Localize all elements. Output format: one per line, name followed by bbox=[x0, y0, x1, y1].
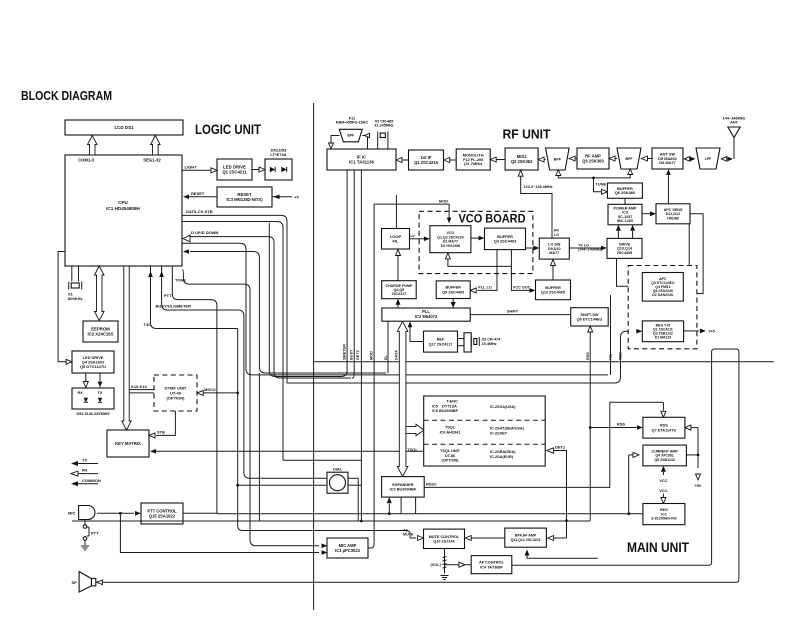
svg-text:AF CONTROL: AF CONTROL bbox=[479, 561, 505, 565]
arrows ANT SW to LPF bbox=[684, 157, 690, 162]
svg-text:LIGHT: LIGHT bbox=[185, 164, 198, 169]
arrow into VCO bbox=[424, 237, 430, 242]
arrow into key matrix bbox=[150, 449, 156, 454]
svg-text:+5V: +5V bbox=[694, 483, 701, 488]
DTMF unit UT-49 option bbox=[154, 375, 197, 411]
svg-text:MUTE CONTROL: MUTE CONTROL bbox=[429, 535, 460, 539]
svg-text:BPF: BPF bbox=[554, 157, 562, 161]
BPF AF amp Q11 Q12 bbox=[505, 528, 547, 547]
wire long rail y520 bbox=[72, 520, 590, 522]
junction dial feed bbox=[236, 484, 239, 487]
arrow buffer Q12 up to LO SW bbox=[552, 266, 554, 281]
junction expander rail bbox=[388, 512, 391, 515]
arrow into diode box bbox=[259, 167, 265, 172]
APC Q3 Q4 Q6 D2 bbox=[642, 273, 683, 302]
svg-text:VCC: VCC bbox=[659, 488, 667, 493]
reset IC3 bbox=[217, 187, 272, 207]
wire RSSC bbox=[424, 402, 657, 487]
arrow into PTT control bbox=[135, 511, 141, 516]
svg-text:MIC: MIC bbox=[68, 511, 75, 516]
svg-text:LT*E73A: LT*E73A bbox=[270, 152, 286, 157]
arrow into LED drive 2 bbox=[66, 359, 72, 364]
separator T-ENC row2 bbox=[424, 443, 546, 445]
svg-text:LO: LO bbox=[554, 233, 559, 237]
svg-text:D2 HVU356: D2 HVU356 bbox=[441, 244, 460, 248]
wire LO SW to drive bbox=[569, 247, 601, 249]
wire X2 to IF IC b bbox=[387, 139, 389, 149]
regulator REG T+5 bbox=[642, 321, 683, 342]
arrow BUSY into CPU bbox=[159, 271, 164, 277]
arrow APC sense to ANT SW bbox=[666, 169, 671, 175]
svg-text:DATA: DATA bbox=[395, 350, 399, 360]
svg-text:(OPTION): (OPTION) bbox=[166, 395, 185, 400]
wire dial feed lower bbox=[238, 484, 327, 486]
wire T3C bbox=[151, 266, 238, 329]
wire expander bottom stub a bbox=[400, 497, 402, 514]
svg-text:BUSY: BUSY bbox=[349, 349, 353, 360]
wire X2 to IF IC a bbox=[377, 139, 379, 149]
svg-text:VCC: VCC bbox=[659, 478, 667, 483]
label 144-146MHz ANT bbox=[723, 117, 746, 125]
APC REG dashed outline bbox=[628, 266, 697, 349]
T-ENC row1 text bbox=[432, 400, 516, 414]
arrow RESET into CPU bbox=[183, 195, 189, 200]
wire DATA CK STB pair a bbox=[182, 215, 287, 383]
svg-text:RX: RX bbox=[77, 391, 83, 395]
mixer MIX1 Q2 bbox=[505, 148, 538, 170]
svg-text:T-ENC: T-ENC bbox=[446, 400, 458, 404]
svg-text:(VOL): (VOL) bbox=[431, 563, 442, 567]
arrow AF mute into mute control bbox=[409, 535, 411, 538]
diode D52 bbox=[270, 167, 275, 172]
wire RSS net bbox=[589, 332, 591, 521]
svg-text:LOGIC UNIT: LOGIC UNIT bbox=[195, 122, 261, 138]
arrow up into shift-sw bbox=[588, 326, 593, 332]
arrow into buffer Q3 bbox=[479, 236, 485, 241]
svg-text:MA77: MA77 bbox=[549, 251, 559, 255]
wire F11 left leg bbox=[331, 136, 339, 147]
wire MOD to VCO bbox=[374, 204, 449, 217]
wire BUSY UL SMETER bbox=[162, 266, 327, 478]
arrow tune BPF2 bbox=[628, 169, 633, 175]
arrow T3C into CPU bbox=[148, 271, 153, 277]
arrow into MIC AMP upper bbox=[322, 544, 328, 549]
arrow BPF2 to RF amp bbox=[609, 156, 615, 161]
svg-text:FIL: FIL bbox=[392, 238, 399, 243]
svg-text:H5U88: H5U88 bbox=[667, 216, 678, 220]
arrow MIX1 to monolith bbox=[496, 159, 505, 161]
arrow PLL to charge pump bbox=[397, 305, 399, 309]
arrow LO into MIX1 bbox=[518, 170, 523, 176]
wire APC to APC sense bbox=[684, 224, 690, 279]
wire MIX1 LO bbox=[521, 176, 552, 238]
svg-text:SP: SP bbox=[72, 580, 78, 585]
arrow PLL LO into buffer Q9 bbox=[470, 288, 476, 293]
svg-text:TX: TX bbox=[98, 391, 103, 395]
arrow hollow into diode pack bbox=[83, 382, 88, 388]
arrow VCC into current amp bbox=[662, 472, 664, 475]
expander IC3 bbox=[382, 477, 425, 498]
wire buffer Q6 to power amp bbox=[624, 198, 626, 204]
ground under PTT bbox=[81, 546, 89, 550]
wire K10-K13 lower bbox=[130, 392, 154, 394]
LED drive Q4 Q5 bbox=[72, 351, 114, 373]
svg-text:2SC4117: 2SC4117 bbox=[392, 292, 407, 296]
arrow MSCO into DTMF bbox=[197, 390, 203, 395]
svg-text:PTT: PTT bbox=[164, 293, 172, 298]
svg-text:REF: REF bbox=[437, 338, 445, 342]
separator T-ENC row1 bbox=[424, 419, 546, 421]
reference osc Q17 bbox=[424, 331, 458, 352]
svg-text:IC-2SXET: IC-2SXET bbox=[490, 432, 508, 436]
mute control Q10 bbox=[424, 529, 465, 548]
svg-text:Q11,Q12 2SC4211: Q11,Q12 2SC4211 bbox=[511, 538, 541, 542]
crystal X2 bbox=[378, 132, 388, 140]
PLL IC2 M64073 bbox=[382, 308, 470, 321]
svg-text:LCD DS1: LCD DS1 bbox=[114, 125, 134, 130]
diode pack D54 bbox=[72, 388, 114, 409]
RSS Q7 bbox=[643, 417, 685, 438]
wire +5 to reset bbox=[272, 196, 292, 198]
svg-text:MOD: MOD bbox=[439, 198, 448, 203]
wire Q4 to diode pack left bbox=[85, 373, 87, 381]
svg-text:LPF: LPF bbox=[705, 157, 713, 161]
arrow into RSS right bbox=[685, 425, 691, 430]
buffer Q12 bbox=[536, 280, 571, 300]
svg-text:IC1 µPC3023: IC1 µPC3023 bbox=[335, 548, 361, 553]
svg-text:TX: TX bbox=[82, 458, 87, 463]
svg-text:Q2 2SK362: Q2 2SK362 bbox=[511, 159, 533, 164]
svg-text:MSCO: MSCO bbox=[204, 387, 216, 392]
label D52 D53 LT*E73A bbox=[270, 148, 287, 157]
svg-text:BUSY/UL/SMETER: BUSY/UL/SMETER bbox=[156, 304, 192, 309]
svg-text:RSS: RSS bbox=[617, 422, 625, 427]
svg-text:MUTE: MUTE bbox=[403, 533, 414, 537]
junction tune bbox=[592, 177, 595, 180]
wire LED drive to diodes bbox=[252, 169, 259, 171]
junction RSS line bbox=[589, 426, 592, 429]
svg-text:SHIFT-SW: SHIFT-SW bbox=[580, 313, 599, 317]
wire STB bbox=[156, 411, 175, 435]
wire loop fil top stub bbox=[395, 195, 397, 229]
svg-text:KBM-455FG-15AC: KBM-455FG-15AC bbox=[336, 121, 369, 125]
svg-text:T+5: T+5 bbox=[708, 329, 716, 334]
svg-text:STB: STB bbox=[157, 429, 165, 434]
arrow into drive bbox=[601, 246, 607, 251]
arrow into APC right bbox=[684, 291, 690, 296]
APC sense D11 D12 bbox=[656, 204, 690, 224]
arrow drive to power amp a bbox=[617, 231, 619, 238]
wire Q5 to diode pack right bbox=[99, 373, 101, 381]
wire into LED drive 2 bbox=[58, 252, 66, 362]
svg-text:K10-K13: K10-K13 bbox=[131, 384, 147, 389]
arrow into APC left bbox=[636, 284, 642, 289]
svg-text:RSSC: RSSC bbox=[426, 481, 437, 486]
diode box D52 D53 bbox=[265, 159, 292, 180]
arrow F11 into IF IC bbox=[329, 143, 334, 149]
wire current amp right to +5V and RSS bbox=[686, 428, 698, 468]
crystal X3 connector bbox=[458, 333, 472, 352]
arrow into MIC AMP lower bbox=[322, 550, 328, 555]
LO switch D9 D10 bbox=[539, 238, 569, 259]
wire long rail y362 bbox=[314, 361, 774, 363]
crystal X3 bbox=[471, 337, 479, 346]
svg-text:MAIN UNIT: MAIN UNIT bbox=[627, 540, 690, 555]
legend COMMON arrow bbox=[71, 481, 78, 486]
arrow VCC OUT into buffer Q12 bbox=[530, 288, 536, 293]
antenna switch D5 D6 bbox=[652, 148, 683, 169]
svg-text:BPF,AF AMP: BPF,AF AMP bbox=[515, 534, 537, 538]
svg-text:Q12 2SC4405: Q12 2SC4405 bbox=[541, 291, 565, 295]
wire loop fil to VCO bbox=[410, 238, 424, 240]
wire dial to det line upper bbox=[348, 478, 358, 521]
svg-text:EL: EL bbox=[384, 354, 388, 360]
junction current amp output bbox=[697, 454, 700, 457]
svg-text:SEG1-32: SEG1-32 bbox=[143, 158, 161, 163]
net label TX LO 144-146MHz bbox=[578, 244, 603, 252]
svg-text:Q6 2SK880: Q6 2SK880 bbox=[615, 190, 636, 195]
svg-text:PTT: PTT bbox=[91, 531, 99, 536]
speaker input arrow bbox=[97, 580, 103, 585]
svg-text:IC1 TA31136: IC1 TA31136 bbox=[349, 160, 374, 165]
arrow STB into key matrix bbox=[149, 433, 155, 438]
svg-text:COMMON: COMMON bbox=[82, 478, 101, 483]
wire REF to PLL bbox=[410, 327, 424, 342]
svg-text:SMETER: SMETER bbox=[343, 344, 347, 360]
arrow RF amp to BPF1 bbox=[569, 156, 575, 161]
supply +5V arrow bbox=[696, 474, 701, 480]
monolith filter F12 bbox=[456, 149, 490, 170]
PTT switch bbox=[83, 520, 89, 545]
BPF filter 2 bbox=[617, 148, 641, 169]
svg-text:IC2 M64073: IC2 M64073 bbox=[415, 314, 438, 319]
T-ENC row3 text bbox=[440, 449, 516, 463]
svg-text:MOD: MOD bbox=[370, 351, 374, 360]
wire TONE bbox=[182, 270, 319, 546]
svg-text:/BC-1265: /BC-1265 bbox=[617, 219, 633, 223]
wire DATA CK STB pair b bbox=[182, 222, 283, 461]
svg-text:DATA,CK,STB: DATA,CK,STB bbox=[186, 209, 213, 214]
svg-text:D1 MA110: D1 MA110 bbox=[655, 336, 671, 340]
svg-text:DET2: DET2 bbox=[356, 350, 360, 360]
wire rail y514 bbox=[217, 513, 644, 515]
wire tune bus bbox=[558, 175, 630, 178]
wire APC sense to APC box bbox=[690, 214, 704, 294]
BPF filter 1 bbox=[546, 148, 570, 170]
svg-text:IC3 BU4094BF: IC3 BU4094BF bbox=[390, 487, 417, 492]
svg-text:15.4MHz: 15.4MHz bbox=[482, 342, 497, 346]
svg-text:TSQL: TSQL bbox=[445, 426, 456, 430]
dial box bbox=[327, 472, 348, 493]
arrow into BPF AF amp bottom bbox=[527, 557, 598, 559]
svg-text:IC-2SA(EUR): IC-2SA(EUR) bbox=[490, 455, 514, 459]
wire APC sense to ANT SW bbox=[667, 175, 669, 204]
svg-text:IC5 BU4094BF: IC5 BU4094BF bbox=[432, 409, 459, 413]
arrow REF into PLL bbox=[408, 321, 413, 327]
antenna symbol bbox=[728, 127, 741, 159]
svg-text:VCC OUT: VCC OUT bbox=[513, 286, 531, 290]
svg-text:D54 SLM-23VMW5: D54 SLM-23VMW5 bbox=[77, 412, 110, 416]
svg-text:IC-2SAT(SEA/USA): IC-2SAT(SEA/USA) bbox=[490, 427, 525, 431]
arrow VOL into AF control bbox=[456, 564, 459, 566]
wire bundle spare vertical bbox=[258, 373, 260, 521]
svg-text:Q9 2SC4403: Q9 2SC4403 bbox=[442, 290, 464, 294]
label F11 KBM-455FG-15AC bbox=[336, 117, 369, 125]
arrow charge pump to loop fil bbox=[397, 256, 399, 281]
svg-text:CPU: CPU bbox=[118, 200, 128, 205]
svg-text:Q1 2SC4211: Q1 2SC4211 bbox=[222, 170, 247, 175]
EEPROM IC2 bbox=[83, 321, 118, 342]
svg-text:X3 CR-474: X3 CR-474 bbox=[482, 337, 502, 341]
svg-text:Q3 2SC4403: Q3 2SC4403 bbox=[494, 239, 517, 244]
svg-text:IC5 DTT1SA: IC5 DTT1SA bbox=[432, 405, 457, 409]
svg-text:DET2: DET2 bbox=[555, 444, 566, 449]
svg-text:RESET: RESET bbox=[191, 191, 205, 196]
arrow solid into diode pack bbox=[98, 382, 103, 388]
buffer Q3 VCO bbox=[485, 228, 526, 250]
buffer Q9 bbox=[436, 281, 470, 299]
charge pump Q4 Q5 bbox=[382, 281, 417, 299]
wire SHIFT bbox=[470, 314, 571, 316]
regulator IC2 S-81250 bbox=[643, 504, 685, 525]
wire buffer Q3 down a bbox=[478, 250, 498, 291]
svg-text:Q3 2SK360: Q3 2SK360 bbox=[582, 159, 604, 164]
svg-text:VCO BOARD: VCO BOARD bbox=[459, 212, 526, 226]
crystal X1 bbox=[69, 282, 82, 290]
wire MOD net bbox=[368, 204, 374, 548]
svg-text:(21.7MHz): (21.7MHz) bbox=[464, 161, 483, 166]
wire buffer Q3 down b bbox=[511, 250, 529, 291]
svg-text:RF UNIT: RF UNIT bbox=[503, 126, 551, 141]
svg-text:UT-86: UT-86 bbox=[445, 454, 455, 458]
driver Q13 Q14 bbox=[607, 238, 642, 258]
svg-text:TSQL UNIT: TSQL UNIT bbox=[440, 449, 461, 453]
wire DET2 net bbox=[360, 170, 362, 521]
svg-text:D UP/D DOWN: D UP/D DOWN bbox=[191, 230, 219, 235]
legend RX arrow bbox=[71, 471, 78, 476]
wire drive to APC bbox=[617, 258, 637, 286]
wire BUSY net bbox=[352, 170, 354, 378]
volume potentiometer bbox=[443, 549, 457, 574]
svg-text:123.3~126.3MHz: 123.3~126.3MHz bbox=[524, 185, 553, 189]
arrow up into expander bottom bbox=[388, 504, 390, 514]
wire K10-K13 upper bbox=[130, 389, 154, 391]
svg-text:TONE: TONE bbox=[175, 278, 186, 283]
loop filter bbox=[382, 229, 410, 250]
arrow BPF AF amp to mute control bbox=[472, 537, 505, 539]
wire MIC branch to MIC AMP bbox=[120, 513, 319, 552]
wire CPU to X1 left leg bbox=[71, 266, 73, 282]
svg-text:BPF: BPF bbox=[347, 134, 354, 138]
arrow buffer Q3 to LO SW bbox=[526, 247, 534, 249]
svg-text:LV: LV bbox=[411, 234, 416, 238]
buffer Q6 2SK880 bbox=[607, 183, 642, 198]
arrow BPF1 to MIX1 bbox=[538, 157, 544, 162]
arrow into LED drive Q1 bbox=[211, 168, 217, 173]
current amp Q4 Q5 bbox=[643, 445, 687, 466]
wire key matrix input long bbox=[156, 450, 424, 452]
LED drive Q1 bbox=[217, 159, 252, 180]
arrow D UP DOWN into CPU bbox=[183, 235, 190, 242]
wire CPU to X1 right leg bbox=[78, 266, 80, 282]
svg-text:SHIFT: SHIFT bbox=[507, 309, 519, 314]
svg-text:RX: RX bbox=[554, 229, 560, 233]
junction T3C DTMF bbox=[236, 392, 239, 395]
wire EL net bbox=[387, 321, 389, 373]
arrow DET2 into T-ENC bbox=[547, 448, 554, 453]
AF control IC4 bbox=[471, 556, 512, 574]
diode D54 RX bbox=[84, 398, 89, 403]
arrow T+5 output bbox=[700, 329, 706, 334]
svg-text:IC-2SXA(USA): IC-2SXA(USA) bbox=[490, 405, 516, 409]
arrows LPF to antenna bbox=[721, 157, 727, 162]
svg-text:Q17 2SC4117: Q17 2SC4117 bbox=[429, 342, 453, 346]
microphone symbol bbox=[79, 506, 95, 520]
CPU IC1 bbox=[65, 155, 182, 266]
svg-text:Q15 2SA1622: Q15 2SA1622 bbox=[149, 514, 176, 519]
wire H/L net bbox=[610, 295, 612, 375]
arrow power amp to APC sense bbox=[642, 213, 650, 215]
bus CPU to LCD SEG bbox=[151, 136, 161, 156]
svg-text:RSS: RSS bbox=[660, 424, 668, 428]
svg-text:+5: +5 bbox=[294, 194, 299, 199]
net label AF MUTE bbox=[403, 528, 414, 536]
wire VCO bottom feedback bbox=[448, 259, 512, 267]
svg-text:KEY MATRIX: KEY MATRIX bbox=[115, 441, 141, 446]
svg-text:IC6 AH2941: IC6 AH2941 bbox=[440, 431, 461, 435]
wire F11 right leg bbox=[362, 136, 367, 150]
svg-text:PLL LO: PLL LO bbox=[478, 285, 491, 289]
arrow tune BPF1 bbox=[556, 170, 561, 176]
arrow into current amp bbox=[628, 455, 630, 514]
svg-text:TSQL: TSQL bbox=[407, 447, 418, 452]
svg-text:Q5 2SB1132: Q5 2SB1132 bbox=[654, 458, 675, 462]
svg-text:BUFFER: BUFFER bbox=[445, 286, 461, 290]
wire SMETER bbox=[269, 170, 347, 376]
arrow into BPF F11 bbox=[365, 133, 370, 137]
wire REG T+5 output bbox=[684, 330, 700, 332]
arrow TBC into REG bbox=[636, 329, 642, 334]
svg-text:(OPTION): (OPTION) bbox=[441, 459, 459, 463]
MIC amp IC1 bbox=[327, 538, 368, 558]
svg-text:T3C: T3C bbox=[144, 322, 152, 327]
svg-text:BPF: BPF bbox=[625, 157, 633, 161]
wire DET2 into T-ENC bbox=[554, 451, 567, 521]
junction MIC line bbox=[119, 512, 122, 515]
arrow RSS into box bbox=[637, 425, 643, 430]
wire DTMF MSCO branch bbox=[203, 392, 238, 394]
VCO board dashed outline bbox=[419, 211, 533, 273]
label X2 CR-465 bbox=[374, 120, 394, 128]
svg-text:Q6 DTC144EU: Q6 DTC144EU bbox=[577, 318, 603, 322]
svg-text:Q10 2SJ144: Q10 2SJ144 bbox=[433, 540, 455, 544]
speaker SP bbox=[79, 572, 96, 592]
svg-text:RX: RX bbox=[82, 468, 88, 473]
shift switch Q6 bbox=[571, 308, 609, 326]
arrow into BPF AF amp right bbox=[566, 521, 568, 538]
svg-text:D6 MA77: D6 MA77 bbox=[659, 160, 676, 165]
bus DATA branch into T-ENC bbox=[406, 424, 424, 436]
power amp IC3 bbox=[608, 204, 642, 225]
svg-text:Q5 DTC114TU: Q5 DTC114TU bbox=[80, 364, 106, 369]
svg-text:800KHz: 800KHz bbox=[68, 296, 83, 301]
wire RESET bbox=[189, 196, 217, 198]
svg-text:TUNE: TUNE bbox=[596, 181, 607, 186]
wire D UP DOWN b bbox=[182, 243, 608, 375]
wire TBC net bbox=[287, 331, 637, 383]
wire unit divider vertical bbox=[313, 103, 315, 610]
arrow ANT SW to BPF2 bbox=[641, 156, 647, 161]
